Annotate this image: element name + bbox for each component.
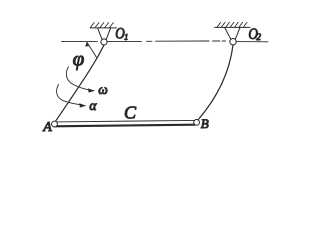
phi arrowhead bbox=[85, 41, 89, 46]
centerline O1-O2 solid segment right of O1 bbox=[107, 40, 141, 42]
phi angle arc bbox=[87, 43, 97, 58]
svg-text:A: A bbox=[42, 120, 52, 135]
ground hatching at O2 bbox=[217, 22, 247, 27]
follower link O2-B bbox=[198, 45, 233, 120]
pivot circle O1 bbox=[101, 39, 107, 45]
centerline dash-dot segments bbox=[147, 40, 153, 42]
horizontal reference line left of O1 bbox=[62, 41, 98, 43]
omega rotation arrow bbox=[66, 67, 88, 90]
svg-text:α: α bbox=[89, 98, 97, 113]
support triangle O2 bbox=[225, 27, 240, 39]
svg-text:C: C bbox=[124, 102, 137, 122]
svg-text:1: 1 bbox=[124, 33, 128, 42]
svg-text:φ: φ bbox=[73, 46, 85, 70]
pivot circle O2 bbox=[230, 39, 236, 45]
horizontal line right of O2 bbox=[236, 41, 268, 43]
omega arrowhead bbox=[88, 88, 95, 92]
pin circle A bbox=[52, 121, 58, 127]
svg-text:B: B bbox=[201, 116, 209, 131]
pin circle B bbox=[194, 120, 200, 126]
alpha arrowhead bbox=[79, 103, 86, 107]
alpha rotation arrow bbox=[57, 85, 80, 105]
crank link O1-A bbox=[56, 45, 105, 122]
svg-text:ω: ω bbox=[98, 82, 108, 97]
ground line at O1 bbox=[90, 27, 116, 29]
support triangle O1 bbox=[98, 28, 111, 40]
ground line at O2 bbox=[215, 26, 250, 28]
ground hatching at O1 bbox=[90, 23, 113, 28]
coupler bar bottom edge bbox=[54, 125, 195, 127]
coupler bar top edge bbox=[55, 120, 195, 122]
small tick below label O1 bbox=[125, 39, 127, 41]
